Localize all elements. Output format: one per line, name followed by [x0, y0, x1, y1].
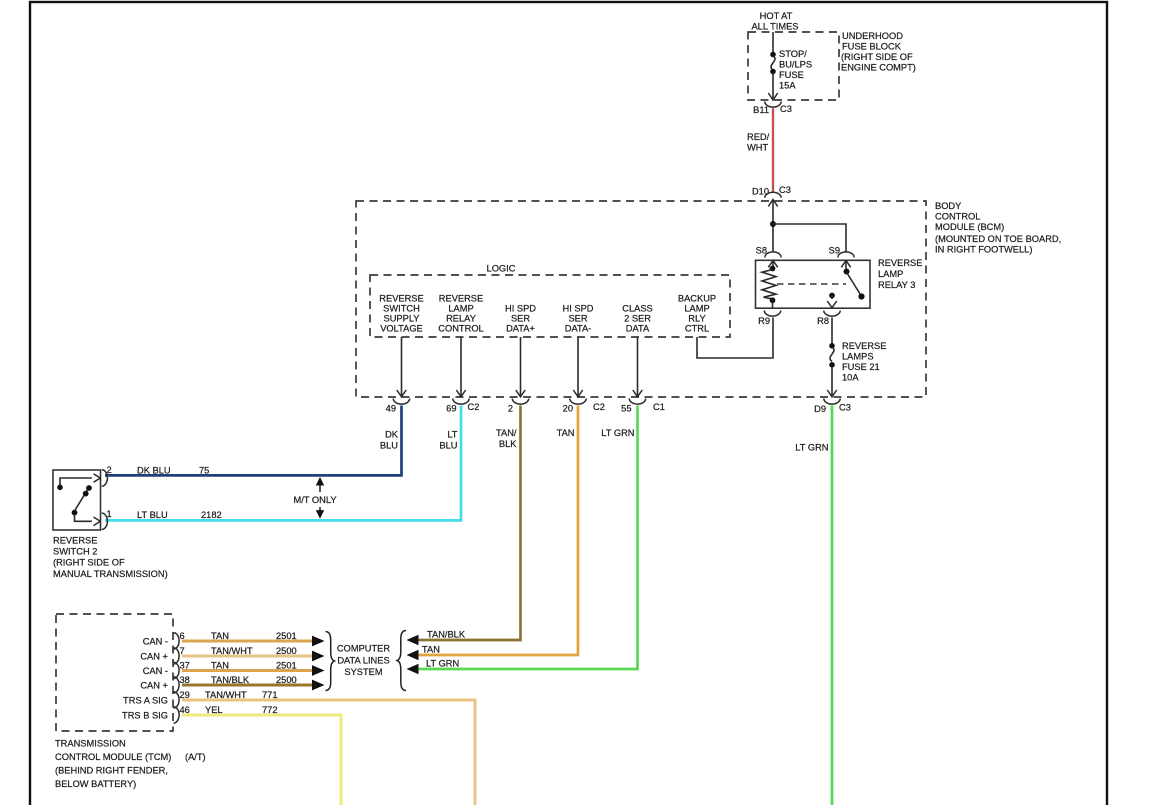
node BACKUP LAMP RLY CTRL: [678, 294, 716, 334]
node HI SPD SER DATA-: [563, 304, 594, 334]
arrow into computer data lines (TAN/BLK): [407, 635, 419, 646]
svg-text:TAN: TAN: [557, 428, 575, 438]
svg-text:R9: R9: [758, 316, 770, 326]
svg-text:BACKUP: BACKUP: [678, 294, 716, 304]
connector TCM pin 38 cup: [174, 677, 180, 693]
wire TAN/BLK pin 2 to data-line arrow: [417, 406, 521, 641]
fuse value label: [779, 49, 812, 91]
svg-text:C3: C3: [780, 104, 792, 114]
svg-text:HI SPD: HI SPD: [563, 304, 594, 314]
svg-text:C2: C2: [468, 402, 480, 412]
wire from HOT AT into fuse: [772, 32, 774, 53]
label TAN/BLK 2500: [211, 675, 297, 685]
wire TAN 2501 pin 6: [182, 640, 313, 643]
connector pin 20 cup: [570, 399, 586, 405]
svg-text:DATA-: DATA-: [565, 324, 592, 334]
BCM dashed box: [356, 201, 926, 397]
label CAN - pin 37: [143, 661, 190, 677]
arrow up into D10: [768, 200, 777, 207]
svg-text:CONTROL: CONTROL: [935, 212, 980, 222]
svg-text:MANUAL TRANSMISSION): MANUAL TRANSMISSION): [53, 569, 168, 579]
wire branch to S9: [773, 224, 846, 252]
wire LT BLU pin 69 to switch pin 1: [105, 406, 461, 521]
wire TAN/WHT 771 pin 29: [182, 700, 475, 805]
svg-text:TAN/: TAN/: [496, 428, 517, 438]
label YEL 772: [205, 705, 278, 715]
svg-text:BODY: BODY: [935, 201, 961, 211]
node REVERSE SWITCH SUPPLY VOLTAGE: [379, 294, 423, 334]
connector TCM pin 37 cup: [174, 662, 180, 678]
reverse switch 2 box: [53, 470, 101, 530]
TCM caption: [55, 739, 206, 790]
svg-text:TAN/WHT: TAN/WHT: [211, 646, 253, 656]
svg-text:1: 1: [107, 509, 112, 519]
svg-text:LT GRN: LT GRN: [426, 659, 459, 669]
TCM dashed box: [56, 614, 173, 731]
svg-text:LT GRN: LT GRN: [795, 443, 828, 453]
connector pin 69 cup: [453, 399, 469, 405]
svg-text:D9: D9: [814, 404, 826, 414]
wire TAN pin 20 to data-line arrow: [417, 406, 578, 656]
arrow up at S8 inside relay: [768, 261, 777, 268]
wire fuse to B11 with arrow: [768, 73, 777, 100]
relay R8 contact with arrow: [827, 293, 836, 308]
switch arm with contacts: [72, 485, 92, 515]
svg-text:REVERSE: REVERSE: [878, 258, 922, 268]
node HOT AT ALL TIMES: [751, 11, 798, 32]
label DK BLU (vertical wire): [380, 430, 399, 451]
wire pin 2 with arrow: [516, 337, 525, 397]
label D10 C3: [752, 185, 791, 197]
svg-text:(MOUNTED ON TOE BOARD,: (MOUNTED ON TOE BOARD,: [935, 234, 1061, 244]
M/T ONLY double arrow: [316, 477, 324, 519]
svg-text:CAN +: CAN +: [140, 652, 168, 662]
relay switch arm: [844, 261, 865, 300]
svg-text:FUSE BLOCK: FUSE BLOCK: [842, 42, 902, 52]
wire R8 to fuse 21: [831, 318, 833, 345]
svg-text:TAN/BLK: TAN/BLK: [427, 630, 466, 640]
label LT BLU (vertical wire): [439, 430, 457, 451]
wire pin 69 with arrow: [456, 337, 465, 397]
dashed coil-to-switch link: [777, 283, 846, 285]
svg-text:2182: 2182: [201, 510, 222, 520]
svg-text:VOLTAGE: VOLTAGE: [380, 324, 423, 334]
svg-text:10A: 10A: [842, 373, 859, 383]
arrow pin 1: [94, 517, 101, 526]
label TAN 2501: [211, 631, 297, 641]
wire D10 down to S8: [772, 200, 774, 253]
label COMPUTER DATA LINES SYSTEM: [337, 644, 390, 678]
svg-text:HI SPD: HI SPD: [505, 304, 536, 314]
label CAN + pin 38: [140, 675, 190, 691]
svg-text:TAN: TAN: [211, 661, 229, 671]
node REVERSE LAMP RELAY CONTROL: [438, 294, 483, 334]
svg-text:HOT AT: HOT AT: [760, 11, 793, 21]
svg-text:BLU: BLU: [439, 441, 457, 451]
wire DK BLU pin 49 to switch pin 2: [105, 406, 402, 476]
svg-text:CAN -: CAN -: [143, 666, 168, 676]
connector C3 pin D10 cup: [765, 192, 781, 198]
wire R9 to backup lamp rly ctrl: [697, 318, 773, 359]
arrow into computer data lines (LT GRN): [407, 664, 419, 675]
arrow into computer data lines (TAN): [407, 650, 419, 661]
svg-text:BU/LPS: BU/LPS: [779, 60, 812, 70]
svg-text:M/T ONLY: M/T ONLY: [293, 495, 336, 505]
svg-text:CAN +: CAN +: [140, 681, 168, 691]
svg-text:2501: 2501: [276, 661, 297, 671]
svg-text:TRS A SIG: TRS A SIG: [123, 696, 168, 706]
svg-text:C2: C2: [593, 402, 605, 412]
label CAN - pin 6: [143, 631, 185, 647]
svg-text:20: 20: [563, 404, 573, 414]
label TRS B SIG pin 46: [122, 705, 190, 721]
brace right (TCM side): [326, 632, 335, 691]
svg-text:SUPPLY: SUPPLY: [384, 314, 420, 324]
svg-text:R8: R8: [817, 316, 829, 326]
label TAN/ BLK (vertical wire): [496, 428, 517, 449]
svg-text:WHT: WHT: [747, 143, 768, 153]
svg-text:SWITCH 2: SWITCH 2: [53, 547, 97, 557]
svg-text:2501: 2501: [276, 631, 297, 641]
svg-text:TRS B SIG: TRS B SIG: [122, 711, 168, 721]
arrow pin 6 wire: [312, 636, 325, 647]
reverse switch caption: [53, 536, 168, 580]
svg-text:BLK: BLK: [499, 439, 517, 449]
label CAN + pin 7: [140, 646, 184, 662]
connector pin 1 cup: [102, 513, 108, 529]
arrow pin 2: [94, 474, 101, 483]
svg-text:MODULE (BCM): MODULE (BCM): [935, 222, 1004, 232]
svg-text:2500: 2500: [276, 675, 297, 685]
svg-text:2: 2: [508, 404, 513, 414]
fuse 21 label: [842, 341, 886, 383]
connector pin 49 cup: [393, 399, 409, 405]
svg-text:2500: 2500: [276, 646, 297, 656]
svg-text:(RIGHT SIDE OF: (RIGHT SIDE OF: [841, 52, 913, 62]
wire pin 49 with arrow: [397, 337, 406, 397]
svg-text:RED/: RED/: [747, 132, 770, 142]
svg-text:49: 49: [386, 404, 396, 414]
connector pin 55 cup: [629, 399, 645, 405]
svg-text:IN RIGHT FOOTWELL): IN RIGHT FOOTWELL): [935, 245, 1032, 255]
arrow pin 37 wire: [312, 665, 325, 676]
svg-text:(BEHIND RIGHT FENDER,: (BEHIND RIGHT FENDER,: [55, 766, 168, 776]
svg-text:REVERSE: REVERSE: [439, 294, 483, 304]
svg-text:STOP/: STOP/: [779, 49, 807, 59]
label pin 1 / LT BLU 2182: [107, 509, 222, 520]
svg-text:SER: SER: [511, 314, 530, 324]
svg-text:TAN/WHT: TAN/WHT: [205, 690, 247, 700]
svg-text:COMPUTER: COMPUTER: [337, 644, 390, 654]
connector C3 pin B11 cup: [765, 102, 781, 108]
svg-text:LAMPS: LAMPS: [842, 352, 874, 362]
arrow pin 7 wire: [312, 651, 325, 662]
label TAN/WHT 771: [205, 690, 278, 700]
svg-text:LT BLU: LT BLU: [137, 510, 168, 520]
fuse REVERSE LAMPS FUSE 21 10A: [829, 343, 835, 368]
svg-text:BELOW BATTERY): BELOW BATTERY): [55, 779, 136, 789]
wire TAN 2501 pin 37: [182, 669, 313, 672]
wire fuse 21 to D9 with arrow: [827, 366, 836, 397]
svg-text:SER: SER: [568, 314, 587, 324]
svg-text:771: 771: [262, 690, 278, 700]
svg-text:DATA LINES: DATA LINES: [337, 656, 389, 666]
svg-text:C3: C3: [839, 403, 851, 413]
svg-text:REVERSE: REVERSE: [842, 341, 886, 351]
svg-text:DK: DK: [385, 430, 399, 440]
svg-text:CONTROL: CONTROL: [438, 324, 483, 334]
svg-text:CAN -: CAN -: [143, 637, 168, 647]
svg-text:TAN: TAN: [211, 631, 229, 641]
wire YEL 772 pin 46: [182, 715, 341, 805]
connector S9 cup: [838, 252, 854, 258]
underhood fuse block box: [748, 32, 839, 100]
underhood fuse block label: [841, 31, 916, 73]
svg-text:RELAY: RELAY: [446, 314, 476, 324]
connector C3 pin D9 cup: [824, 399, 840, 405]
wire LT GRN from D9 to bottom: [831, 406, 834, 805]
relay coil: [762, 261, 776, 309]
connector S8 cup: [765, 252, 781, 258]
pin labels 49 69 C2 2 20 C2 55 C1: [386, 402, 665, 414]
label TAN/WHT 2500: [211, 646, 297, 656]
svg-text:772: 772: [262, 705, 278, 715]
wire pin 55 with arrow: [633, 337, 642, 397]
svg-text:TAN/BLK: TAN/BLK: [211, 675, 250, 685]
label RED/WHT: [747, 132, 770, 153]
arrow up at S9 inside relay: [841, 261, 850, 268]
svg-text:S9: S9: [829, 246, 840, 256]
svg-text:CTRL: CTRL: [685, 324, 709, 334]
connector pin 2 cup: [512, 399, 528, 405]
svg-text:LAMP: LAMP: [684, 304, 709, 314]
wire RED/WHT: [772, 108, 774, 192]
connector R8 cup: [824, 311, 840, 317]
BCM caption: [935, 201, 1061, 255]
svg-text:LT GRN: LT GRN: [601, 428, 634, 438]
svg-text:LAMP: LAMP: [878, 269, 903, 279]
svg-text:B11: B11: [753, 105, 769, 115]
svg-text:TRANSMISSION: TRANSMISSION: [55, 739, 126, 749]
connector pin 2 cup: [102, 470, 108, 486]
connector TCM pin 29 cup: [174, 692, 180, 708]
svg-text:C3: C3: [779, 185, 791, 195]
node HI SPD SER DATA+: [505, 304, 536, 334]
LOGIC dashed box: [370, 275, 730, 337]
svg-text:RELAY 3: RELAY 3: [878, 280, 915, 290]
svg-text:55: 55: [621, 404, 631, 414]
connector TCM pin 46 cup: [174, 707, 180, 723]
svg-text:15A: 15A: [779, 81, 796, 91]
svg-text:TAN: TAN: [422, 645, 440, 655]
label D9 C3: [814, 403, 851, 415]
svg-text:REVERSE: REVERSE: [53, 536, 97, 546]
svg-text:DATA+: DATA+: [506, 324, 535, 334]
wire LT GRN pin 55 to data-line arrow: [417, 406, 638, 670]
svg-text:FUSE: FUSE: [779, 70, 804, 80]
svg-text:LOGIC: LOGIC: [487, 264, 516, 274]
svg-text:D10: D10: [752, 187, 769, 197]
connector TCM pin 6 cup: [174, 633, 180, 649]
svg-text:REVERSE: REVERSE: [379, 294, 423, 304]
svg-text:FUSE 21: FUSE 21: [842, 362, 880, 372]
svg-text:DK BLU: DK BLU: [137, 466, 171, 476]
svg-text:LAMP: LAMP: [448, 304, 473, 314]
svg-text:CONTROL MODULE (TCM): CONTROL MODULE (TCM): [55, 752, 171, 762]
label B11 C3: [753, 104, 792, 115]
svg-text:ALL TIMES: ALL TIMES: [751, 22, 798, 32]
svg-text:(A/T): (A/T): [185, 752, 206, 762]
label REVERSE LAMP RELAY 3: [878, 258, 922, 290]
svg-text:S8: S8: [756, 246, 767, 256]
svg-text:SWITCH: SWITCH: [383, 304, 420, 314]
arrow pin 38 wire: [312, 680, 325, 691]
node CLASS 2 SER DATA: [622, 304, 653, 334]
svg-text:YEL: YEL: [205, 705, 223, 715]
wire TAN/BLK 2500 pin 38: [182, 684, 313, 687]
brace left (BCM side): [397, 631, 406, 691]
svg-text:UNDERHOOD: UNDERHOOD: [842, 31, 903, 41]
svg-text:2: 2: [107, 465, 112, 475]
svg-text:SYSTEM: SYSTEM: [344, 667, 382, 677]
svg-text:ENGINE COMPT): ENGINE COMPT): [841, 63, 916, 73]
switch internal wire pin 2 side: [57, 478, 92, 490]
switch internal wire pin 1 side: [75, 514, 93, 521]
svg-text:LT: LT: [447, 430, 457, 440]
label pin 2 / DK BLU 75: [107, 465, 210, 476]
wire TAN/WHT 2500 pin 7: [182, 655, 313, 658]
svg-text:75: 75: [199, 466, 209, 476]
svg-text:C1: C1: [653, 402, 665, 412]
svg-text:CLASS: CLASS: [622, 304, 653, 314]
svg-text:(RIGHT SIDE OF: (RIGHT SIDE OF: [53, 558, 125, 568]
svg-text:RLY: RLY: [688, 314, 705, 324]
connector TCM pin 7 cup: [174, 648, 180, 664]
wire pin 20 with arrow: [573, 337, 582, 397]
connector R9 cup: [764, 311, 780, 317]
relay K reverse lamp relay 3 box: [756, 260, 871, 308]
svg-text:DATA: DATA: [626, 324, 650, 334]
fuse STOP/BU/LPS FUSE 15A: [770, 52, 776, 75]
junction node: [770, 221, 776, 227]
label TAN 2501 (row 3): [211, 661, 297, 671]
svg-text:2 SER: 2 SER: [624, 314, 651, 324]
svg-text:69: 69: [446, 404, 456, 414]
label TRS A SIG pin 29: [123, 690, 190, 706]
svg-text:BLU: BLU: [380, 441, 398, 451]
